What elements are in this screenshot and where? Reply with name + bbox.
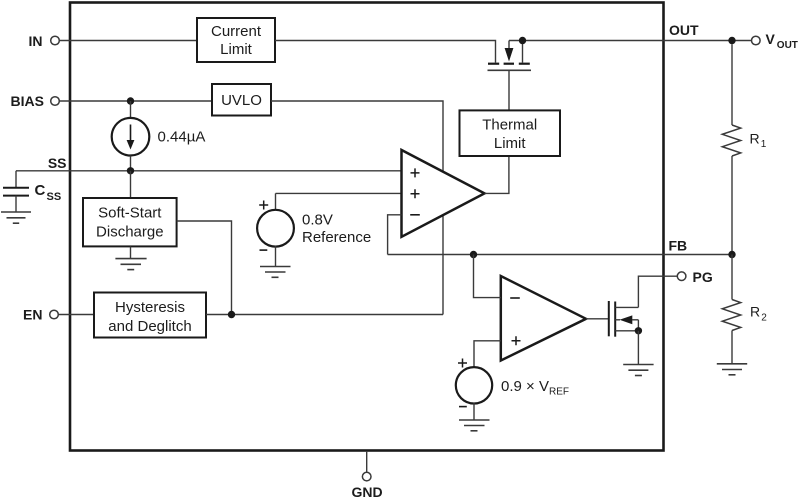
ground under CSS: [1, 212, 31, 223]
svg-text:R: R: [750, 131, 760, 147]
junction at Q1 drain / OUT: [519, 37, 526, 44]
svg-text:BIAS: BIAS: [11, 93, 44, 109]
pin OUT label: [669, 22, 699, 38]
wire R1 to FB node: [731, 156, 733, 255]
svg-text:Hysteresis: Hysteresis: [115, 299, 185, 316]
wire FB to comparator inverting input: [474, 255, 501, 298]
svg-text:0.8V: 0.8V: [302, 212, 333, 229]
capacitor CSS: [3, 171, 61, 212]
wire SS to Soft-Start Discharge: [130, 171, 132, 198]
transistor Q2 NMOS power-good: [609, 301, 639, 337]
pin EN terminal: [23, 307, 58, 323]
ground under Q2: [623, 365, 653, 376]
pin FB label: [669, 238, 688, 254]
wire Soft-Start Discharge to ground: [130, 246, 132, 258]
resistor R1: [722, 125, 767, 156]
svg-text:V: V: [766, 31, 776, 47]
transistor Q1 PMOS pass FET: [488, 41, 532, 71]
ground under 0.9 Vref: [459, 420, 490, 431]
pin SS label: [48, 155, 67, 171]
ground under Soft-Start Discharge: [115, 259, 146, 270]
ground under R2: [717, 364, 747, 375]
current source I1 0.44uA: [112, 101, 150, 171]
wire UVLO to enable net: [271, 101, 443, 315]
junction EN net / soft-start discharge: [228, 311, 235, 318]
wire OUT net: [509, 40, 751, 42]
voltage source V2 0.9 x Vref: [456, 359, 492, 420]
svg-text:Limit: Limit: [220, 41, 253, 58]
svg-text:FB: FB: [669, 238, 688, 254]
op-amp U2 power-good comparator: [501, 276, 586, 361]
block Soft-Start Discharge: [83, 198, 177, 246]
svg-text:SS: SS: [47, 191, 62, 203]
wire Soft-Start Discharge output to EN net: [177, 221, 232, 315]
svg-text:and Deglitch: and Deglitch: [108, 318, 191, 335]
voltage source V1 0.8V reference: [257, 193, 294, 266]
svg-text:R: R: [750, 304, 760, 320]
svg-text:2: 2: [761, 313, 767, 324]
terminal VOUT: [752, 31, 798, 51]
svg-text:C: C: [35, 182, 46, 199]
wire error amp output to gate net: [485, 156, 509, 193]
svg-text:Current: Current: [211, 23, 262, 40]
terminal PG: [677, 269, 713, 285]
wire OUT to R1: [731, 44, 733, 125]
value label 0.8V Reference: [302, 212, 371, 247]
wire 0.8V reference to error amp input: [276, 192, 402, 194]
wire Hysteresis output to enable net: [206, 314, 443, 316]
svg-text:0.9 × V: 0.9 × V: [501, 378, 549, 395]
wire Current Limit to pass FET source: [275, 41, 496, 63]
value label 0.9 x VREF: [501, 378, 569, 398]
svg-text:OUT: OUT: [669, 22, 699, 38]
wire BIAS to UVLO: [59, 100, 212, 102]
svg-text:SS: SS: [48, 155, 67, 171]
wire error amp inverting input from FB: [388, 215, 402, 255]
block Hysteresis and Deglitch: [94, 293, 206, 338]
svg-text:Thermal: Thermal: [482, 117, 537, 134]
junction BIAS / current source: [127, 97, 134, 104]
svg-text:Limit: Limit: [494, 135, 527, 152]
pin BIAS terminal: [11, 93, 60, 109]
svg-text:EN: EN: [23, 307, 42, 323]
block Current Limit: [197, 18, 275, 62]
svg-text:1: 1: [761, 139, 767, 150]
svg-text:Discharge: Discharge: [96, 224, 164, 241]
junction OUT / R1: [728, 37, 735, 44]
wire SS net to error amp input: [16, 170, 402, 172]
IC boundary box: [70, 3, 664, 451]
junction SS / soft-start: [127, 167, 134, 174]
wire comparator non-inverting input to 0.9 Vref: [474, 341, 501, 368]
wire FB net: [388, 254, 732, 256]
svg-text:UVLO: UVLO: [221, 92, 262, 109]
wire comparator output to Q2 gate: [586, 318, 608, 320]
wire IN to Current Limit: [59, 40, 197, 42]
svg-text:PG: PG: [693, 269, 713, 285]
pin GND terminal: [351, 451, 382, 500]
ground under 0.8V reference: [260, 267, 291, 278]
wire EN to Hysteresis block: [58, 314, 94, 316]
value label 0.44uA: [158, 129, 206, 146]
pin IN terminal: [29, 33, 60, 49]
wire Q2 drain to PG terminal: [638, 276, 677, 307]
svg-text:IN: IN: [29, 33, 43, 49]
junction FB / divider: [728, 251, 735, 258]
svg-text:OUT: OUT: [777, 40, 798, 51]
resistor R2: [722, 255, 767, 364]
wire Q1 gate to Thermal Limit: [508, 71, 510, 110]
svg-text:Reference: Reference: [302, 229, 371, 246]
svg-text:0.44µA: 0.44µA: [158, 129, 206, 146]
junction FB / comparator: [470, 251, 477, 258]
svg-text:GND: GND: [351, 484, 382, 500]
op-amp U1 error amplifier: [402, 150, 485, 237]
junction Q2 source / body: [635, 327, 642, 334]
svg-text:REF: REF: [549, 387, 569, 398]
wire Q2 source to ground: [637, 331, 639, 364]
svg-text:Soft-Start: Soft-Start: [98, 205, 162, 222]
block UVLO: [212, 84, 271, 116]
block Thermal Limit: [460, 110, 561, 156]
